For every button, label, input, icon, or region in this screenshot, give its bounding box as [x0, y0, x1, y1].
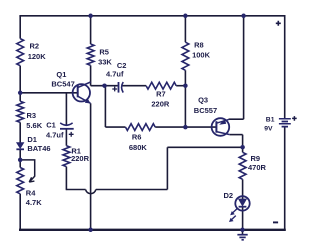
svg-text:BAT46: BAT46: [27, 144, 50, 153]
svg-text:D1: D1: [27, 135, 37, 144]
svg-text:BC557: BC557: [194, 106, 217, 115]
svg-text:R8: R8: [194, 41, 204, 50]
svg-text:B1: B1: [266, 117, 275, 124]
svg-text:470R: 470R: [248, 163, 267, 172]
svg-text:R9: R9: [251, 154, 261, 163]
svg-text:100K: 100K: [192, 50, 211, 59]
svg-text:R5: R5: [99, 48, 109, 57]
svg-text:R4: R4: [26, 189, 36, 198]
svg-text:220R: 220R: [71, 154, 90, 163]
svg-text:4.7uf: 4.7uf: [106, 69, 124, 78]
svg-text:Q3: Q3: [198, 95, 208, 104]
svg-text:4.7uf: 4.7uf: [46, 130, 64, 139]
svg-text:5.6K: 5.6K: [26, 121, 42, 130]
svg-text:33K: 33K: [98, 58, 112, 67]
svg-text:C1: C1: [46, 121, 56, 130]
svg-text:R2: R2: [30, 41, 40, 50]
svg-text:BC547: BC547: [51, 80, 74, 89]
svg-text:R7: R7: [156, 90, 166, 99]
svg-text:220R: 220R: [151, 99, 170, 108]
svg-text:120K: 120K: [28, 52, 47, 61]
svg-text:4.7K: 4.7K: [26, 198, 42, 207]
svg-text:R6: R6: [132, 133, 142, 142]
svg-text:R3: R3: [27, 111, 37, 120]
svg-text:9V: 9V: [264, 126, 273, 133]
svg-text:D2: D2: [224, 191, 234, 200]
svg-text:Q1: Q1: [56, 70, 66, 79]
svg-text:680K: 680K: [129, 143, 148, 152]
